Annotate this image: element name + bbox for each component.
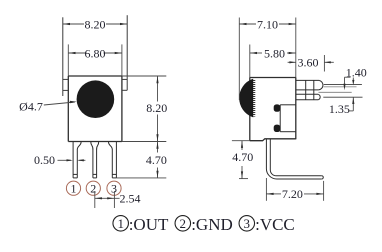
dimension 5.80 — [250, 45, 296, 78]
body front view outline — [68, 76, 122, 142]
rivet lower — [274, 125, 281, 132]
svg-text::VCC: :VCC — [255, 215, 295, 234]
svg-text:8.20: 8.20 — [85, 17, 106, 31]
svg-text:2.54: 2.54 — [120, 192, 141, 206]
right tab — [122, 15, 127, 90]
body side view outline — [250, 78, 296, 141]
circled pin number 1 — [66, 181, 80, 195]
dimension 8.20 width (top) — [63, 23, 127, 25]
dimension 4.70 (side view) — [232, 141, 250, 179]
svg-text::GND: :GND — [191, 215, 233, 234]
dimension 8.20 height (right of front view) — [122, 76, 166, 142]
svg-text:8.20: 8.20 — [146, 101, 167, 115]
legend circled 1 — [113, 216, 129, 232]
left tab — [63, 17, 69, 96]
dimension 2.54 (pin pitch) — [95, 191, 120, 208]
lens dome (side, hatched) — [240, 79, 254, 117]
svg-text:2: 2 — [90, 182, 96, 196]
dimension 6.80 width — [68, 44, 122, 76]
circled pin number 3 — [107, 181, 121, 195]
svg-text:7.10: 7.10 — [257, 17, 278, 31]
legend circled 3 — [239, 216, 255, 232]
svg-text:1.35: 1.35 — [329, 102, 350, 116]
bent lead (L-shape) — [266, 139, 323, 179]
lens circle (front) — [77, 80, 115, 118]
dimension 4.70 (right of front view pins) — [117, 142, 167, 178]
legend circled 2 — [175, 216, 191, 232]
rear pin block — [296, 80, 323, 99]
back notch with rivets — [280, 105, 296, 132]
svg-text:4.70: 4.70 — [232, 150, 253, 164]
svg-text:1: 1 — [71, 182, 77, 196]
svg-text:5.80: 5.80 — [264, 46, 285, 60]
rear pin wires — [319, 84, 363, 97]
dimension 3.60 — [288, 55, 334, 72]
pin 3 (front view) — [108, 142, 116, 178]
svg-text:0.50: 0.50 — [34, 153, 55, 167]
svg-text:1: 1 — [117, 216, 124, 231]
dimension 7.20 — [266, 178, 323, 201]
svg-text::OUT: :OUT — [129, 215, 169, 234]
dimension 7.10 (top of side view) — [239, 18, 295, 101]
svg-text:3: 3 — [244, 216, 251, 231]
pin 2 (front view) — [91, 142, 99, 178]
svg-text:3.60: 3.60 — [298, 55, 319, 69]
rivet upper — [274, 104, 281, 111]
pin 1 (front view) — [73, 142, 81, 178]
svg-text:7.20: 7.20 — [282, 187, 303, 201]
circled pin number 2 — [86, 181, 100, 195]
svg-text:Ø4.7: Ø4.7 — [19, 100, 43, 114]
svg-text:4.70: 4.70 — [146, 153, 167, 167]
svg-text:6.80: 6.80 — [85, 46, 106, 60]
svg-text:2: 2 — [180, 216, 187, 231]
